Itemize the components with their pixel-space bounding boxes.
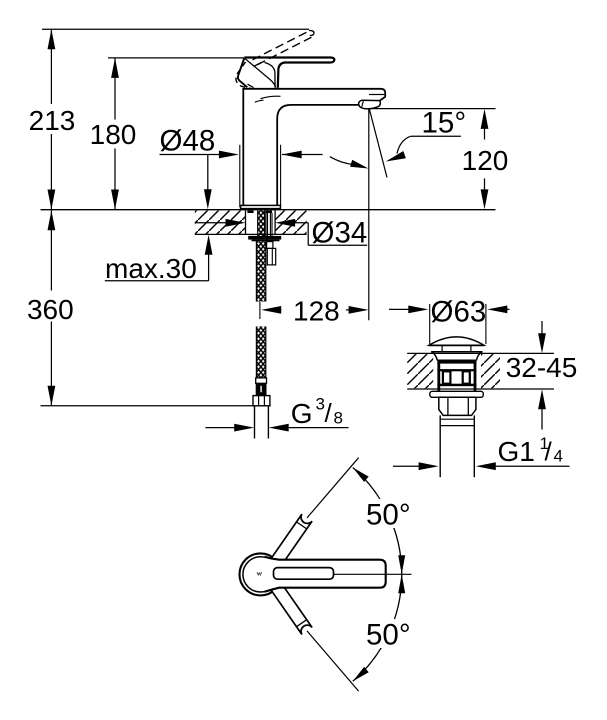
dimension 128 — [260, 296, 369, 327]
label max.30 — [105, 235, 213, 284]
base plate on countertop — [241, 205, 281, 208]
connection pipe below fitting — [255, 406, 269, 439]
vertical reference line from spout outlet — [368, 109, 370, 320]
drain valve body in counter — [432, 352, 483, 392]
faucet body and spout — [243, 89, 385, 206]
dimension 180 extension line — [108, 57, 244, 59]
dimension G1 1/4 arrows — [393, 462, 570, 470]
svg-text:180: 180 — [90, 119, 137, 150]
top view: swing arc with arrows — [353, 468, 405, 682]
svg-text:Ø34: Ø34 — [312, 216, 368, 249]
svg-text:max.30: max.30 — [105, 253, 197, 284]
label 50 deg upper — [362, 499, 415, 532]
countertop surface line — [41, 209, 496, 211]
dimension 32-45 — [506, 321, 578, 430]
svg-text:/: / — [325, 398, 333, 428]
faucet handle base — [238, 58, 276, 88]
svg-text:4: 4 — [554, 447, 563, 466]
label G3/8 — [291, 395, 343, 430]
svg-text:Ø63: Ø63 — [431, 295, 487, 328]
svg-text:Ø48: Ø48 — [160, 125, 216, 158]
top view: lever at +50 deg (upper) — [271, 514, 312, 566]
countertop hatched section (left view) — [195, 210, 307, 234]
dimension G3/8 arrows — [205, 424, 348, 432]
dimension O48 — [160, 125, 323, 210]
svg-text:50°: 50° — [366, 499, 411, 532]
top view: 50 deg leg line lower — [307, 631, 359, 691]
top view: 50 deg leg line upper — [307, 458, 359, 518]
drain tailpipe — [440, 415, 474, 477]
15 deg angle arc — [330, 157, 369, 169]
faucet lever handle (solid) — [244, 58, 334, 88]
flexible hose lower segment — [256, 327, 265, 378]
drain valve push cap — [429, 337, 484, 352]
label 50 deg lower — [362, 619, 415, 652]
label G1 1/4 — [498, 434, 563, 467]
svg-text:G: G — [291, 398, 313, 429]
svg-text:213: 213 — [29, 105, 76, 136]
dimension 120 — [462, 109, 509, 209]
mounting shank through hole — [247, 210, 272, 236]
top view: logo mark in circle — [257, 572, 262, 575]
water stream line at 15 deg — [369, 109, 387, 178]
svg-text:50°: 50° — [366, 619, 411, 652]
label 15 deg with leader — [386, 107, 466, 162]
raised lever position (dashed) — [236, 30, 314, 88]
washer and fastening set under counter — [248, 236, 281, 241]
dimension 213 extension line — [42, 28, 309, 30]
top view: lever handle (horizontal) — [265, 557, 386, 592]
drain locknut — [439, 397, 476, 415]
dimension 360 bottom extension line — [41, 405, 254, 407]
svg-text:15°: 15° — [422, 107, 467, 140]
dimension O34 with leader — [195, 216, 367, 249]
top view: faucet body circles — [240, 553, 282, 595]
top view: lever at -50 deg (lower) — [271, 583, 312, 635]
hose end fitting with G3/8 nut — [253, 378, 270, 406]
svg-text:G1: G1 — [498, 436, 535, 467]
dimension 120 extension line — [364, 108, 496, 110]
flexible hose upper segment — [256, 241, 265, 301]
countertop hatched section (drain view) — [407, 353, 554, 389]
dimension 180 — [90, 58, 137, 210]
svg-text:32-45: 32-45 — [506, 352, 578, 383]
svg-text:128: 128 — [293, 296, 340, 327]
dimension 213 — [29, 29, 76, 209]
dimension 360 — [27, 210, 74, 406]
svg-text:360: 360 — [27, 294, 74, 325]
sealing washer under counter — [430, 391, 484, 397]
svg-text:/: / — [545, 437, 553, 467]
top view: center line — [334, 573, 412, 575]
svg-text:120: 120 — [462, 145, 509, 176]
svg-text:8: 8 — [334, 409, 343, 428]
aerator at spout tip — [359, 95, 385, 109]
pop-up rod connector — [267, 242, 276, 265]
dimension O63 — [389, 295, 510, 344]
